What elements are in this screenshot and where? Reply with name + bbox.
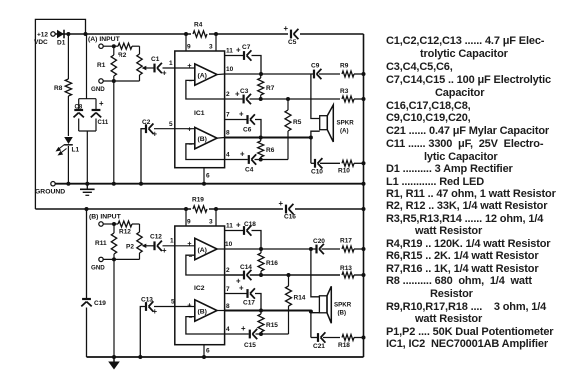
terminal +12 VDC <box>51 32 55 36</box>
junction R16 on pin2 B <box>259 273 263 277</box>
wire R3 to rail <box>354 98 364 100</box>
speaker A wiring top <box>311 74 320 119</box>
wire C2 to pin 5 <box>154 128 195 130</box>
svg-text:9: 9 <box>187 44 191 51</box>
wire filter to ground <box>86 131 88 184</box>
wire R10 to rail <box>354 162 364 164</box>
terminal input B <box>99 222 103 226</box>
svg-text:C14: C14 <box>240 264 252 271</box>
junction R14 on pin2 B <box>287 273 291 277</box>
svg-text:+: + <box>239 110 244 119</box>
junction C18/R16 on pin10 B <box>259 247 263 251</box>
pin 3 stub IC2 <box>215 209 217 226</box>
pin 7 net: wire <box>225 119 247 121</box>
svg-text:GND: GND <box>91 265 105 272</box>
svg-text:C12: C12 <box>150 234 162 241</box>
capacitor C14 <box>243 271 245 280</box>
capacitor C5 on top rail <box>288 28 300 40</box>
wire input A <box>103 45 118 47</box>
resistor R11 <box>113 224 115 357</box>
svg-text:1: 1 <box>169 60 173 67</box>
svg-text:C11: C11 <box>98 120 109 126</box>
junction R11-bottom rail <box>112 355 116 359</box>
pin 8 line <box>225 136 311 138</box>
wire R17 to rail <box>354 248 364 250</box>
pin 8 line B <box>225 309 311 311</box>
resistor R8 <box>64 79 74 96</box>
pin 2 line <box>225 98 243 100</box>
wire C7 to pin10 line <box>252 56 262 75</box>
junction R5 on pin2 <box>286 97 290 101</box>
svg-text:+12: +12 <box>37 32 48 39</box>
svg-text:R14: R14 <box>294 295 306 302</box>
svg-text:+: + <box>241 324 246 333</box>
IC1 box <box>175 51 225 168</box>
svg-text:VDC: VDC <box>34 39 48 46</box>
junction speaker B on pin8 <box>309 310 313 314</box>
junction B rail / right rail <box>362 207 366 211</box>
pin 3 stub <box>215 34 217 51</box>
wire outer frame left <box>35 19 85 209</box>
svg-text:+: + <box>279 199 284 208</box>
svg-text:R4: R4 <box>194 22 203 29</box>
ground arrow bottom <box>113 357 115 362</box>
capacitor C10 <box>314 159 316 168</box>
svg-text:+: + <box>236 221 241 230</box>
svg-text:R12: R12 <box>119 229 131 236</box>
resistor R16 <box>258 253 264 271</box>
wire channel-B top rail <box>35 208 363 210</box>
ground symbol <box>86 184 88 189</box>
junction input A / R1 <box>112 44 116 48</box>
op-amp IC2-B <box>195 300 217 321</box>
wire C13 branch <box>140 307 145 358</box>
svg-text:R15: R15 <box>266 322 278 329</box>
wire R18 to rail <box>354 337 364 339</box>
capacitor C1 <box>153 64 155 73</box>
pin 10 line <box>225 73 313 75</box>
potentiometer P1 wiper arrow <box>144 67 149 69</box>
wire IC1-A feedback <box>186 80 225 99</box>
wire C2 branch <box>141 129 145 184</box>
svg-text:R13: R13 <box>340 265 352 272</box>
pin 4 line B <box>225 333 249 335</box>
resistor R13 <box>342 272 354 278</box>
wire R2 to P1 <box>132 45 140 47</box>
wire IC2-B feedback <box>186 317 225 334</box>
resistor R1 <box>113 46 115 184</box>
wire wiper to C1 <box>149 67 155 69</box>
svg-text:C1: C1 <box>151 56 160 63</box>
junction R1 / GND line <box>112 79 116 83</box>
resistor R6 <box>258 141 264 157</box>
C21-R18 line <box>311 337 317 339</box>
wire channel-B left border with C19 <box>86 209 88 298</box>
svg-text:SPKR: SPKR <box>334 302 352 309</box>
wire bottom rail <box>87 356 364 358</box>
svg-text:(B) INPUT: (B) INPUT <box>89 214 122 221</box>
capacitor C15 <box>249 330 251 339</box>
svg-text:R11: R11 <box>95 240 107 247</box>
svg-text:5: 5 <box>169 121 173 128</box>
svg-text:R19: R19 <box>192 197 204 204</box>
junction R1-ground rail <box>112 182 116 186</box>
LED L1 emission arrows <box>58 145 65 150</box>
speaker A wiring bottom <box>311 131 320 163</box>
wire supply filter branch <box>86 34 88 99</box>
capacitor C13 <box>145 302 147 311</box>
svg-text:−: − <box>189 315 193 322</box>
svg-text:R16: R16 <box>266 260 278 267</box>
resistor R10 <box>342 160 354 166</box>
pin 10 line B <box>225 248 316 250</box>
svg-text:10: 10 <box>225 241 233 248</box>
speaker SPKR (A) <box>320 116 328 130</box>
wire IC1-B feedback <box>186 144 225 160</box>
svg-text:(B): (B) <box>198 136 207 143</box>
junction C2-ground rail <box>139 182 143 186</box>
svg-text:7: 7 <box>226 112 230 119</box>
junction speaker B top <box>309 247 313 251</box>
svg-text:+: + <box>162 246 167 255</box>
svg-text:1: 1 <box>170 238 174 245</box>
resistor R5 branch <box>287 131 289 160</box>
svg-text:IC2: IC2 <box>194 285 205 292</box>
svg-text:8: 8 <box>226 130 230 137</box>
resistor R2 <box>118 43 132 49</box>
junction frame / channel-B border <box>85 207 89 211</box>
resistor R18 <box>342 335 354 341</box>
pin 4 line <box>225 159 248 161</box>
svg-text:R3: R3 <box>340 88 349 95</box>
svg-text:GND: GND <box>91 86 105 93</box>
junction filter-ground <box>85 182 89 186</box>
svg-text:C18: C18 <box>244 221 256 228</box>
svg-text:R18: R18 <box>338 342 350 349</box>
svg-text:R8: R8 <box>54 85 63 92</box>
svg-text:11: 11 <box>226 223 233 230</box>
pin 11 net B: wire <box>225 230 243 232</box>
resistor R17 <box>342 246 354 252</box>
pin 9 stub <box>185 34 187 51</box>
resistor R19 <box>191 203 209 215</box>
svg-text:9: 9 <box>187 219 191 226</box>
wire R12 to P2 <box>132 223 140 225</box>
svg-text:−: − <box>189 78 193 85</box>
pin 7 net B: wire <box>225 293 247 295</box>
svg-text:IC1: IC1 <box>194 110 205 117</box>
wire GND line A <box>103 80 139 82</box>
svg-text:(A): (A) <box>198 73 207 80</box>
svg-text:+: + <box>239 284 244 293</box>
capacitor C12 <box>153 241 155 250</box>
pin 9 stub IC2 <box>185 209 187 226</box>
svg-text:C10: C10 <box>311 169 323 176</box>
potentiometer P1 <box>139 46 141 81</box>
wire +12V top rail <box>55 33 364 35</box>
speaker B wiring top <box>311 249 320 297</box>
svg-text:+: + <box>99 99 104 108</box>
junction input B / R11 <box>112 222 116 226</box>
svg-text:7: 7 <box>226 286 230 293</box>
svg-text:C19: C19 <box>94 300 106 307</box>
resistor R7 <box>258 78 264 95</box>
svg-text:R6: R6 <box>266 147 275 154</box>
junction L1-ground <box>66 182 70 186</box>
op-amp IC1-B <box>195 127 217 148</box>
op-amp IC1-A <box>195 64 217 85</box>
parts list text column <box>386 35 544 47</box>
capacitor C18 <box>243 226 245 235</box>
svg-text:C6: C6 <box>243 127 252 134</box>
svg-text:8: 8 <box>226 303 230 310</box>
wire IC2-B output <box>217 310 225 312</box>
svg-text:4: 4 <box>226 152 230 159</box>
svg-text:(A) INPUT: (A) INPUT <box>88 36 121 43</box>
svg-text:+: + <box>240 150 245 159</box>
svg-text:R1: R1 <box>97 62 106 69</box>
capacitor C8 / C11 parallel box <box>79 98 96 100</box>
svg-text:C15: C15 <box>244 342 256 349</box>
svg-text:C8: C8 <box>75 105 83 111</box>
junction R11 / GND line B <box>112 257 116 261</box>
capacitor C4 <box>248 155 250 164</box>
svg-text:6: 6 <box>206 173 210 180</box>
wire GND line B <box>103 258 139 260</box>
potentiometer P2 wiper arrow <box>144 245 149 247</box>
capacitor C17 <box>246 289 248 298</box>
wire wiper to C12 <box>149 245 155 247</box>
pin 2 line B <box>225 274 243 276</box>
svg-text:R9: R9 <box>340 63 349 70</box>
svg-text:+: + <box>162 69 167 78</box>
junction R6 on pin4 <box>259 158 263 162</box>
wire C13 to pin 5 IC2 <box>154 306 195 308</box>
resistor R15 <box>258 314 264 332</box>
svg-text:10: 10 <box>226 66 234 73</box>
pin 6 stub IC1 <box>203 168 205 184</box>
pin 6 stub IC2 <box>203 345 205 357</box>
svg-text:4: 4 <box>226 326 230 333</box>
LED L1 <box>64 136 74 146</box>
speaker SPKR (B) <box>319 296 327 313</box>
capacitor C11 <box>92 109 101 111</box>
capacitor C20 <box>315 245 317 254</box>
svg-text:C21: C21 <box>313 343 325 350</box>
svg-text:C7: C7 <box>242 44 251 51</box>
svg-text:C3: C3 <box>240 88 249 95</box>
wire R8-LED branch <box>67 34 69 184</box>
svg-text:R10: R10 <box>338 168 350 175</box>
wire IC1-A output <box>217 73 225 76</box>
svg-text:SPKR: SPKR <box>337 120 355 127</box>
terminal input A <box>99 44 103 48</box>
capacitor C7 <box>243 51 245 60</box>
svg-text:R17: R17 <box>340 238 352 245</box>
svg-text:+: + <box>187 239 192 248</box>
capacitor C19 <box>82 298 91 300</box>
capacitor C8 <box>74 109 83 111</box>
svg-text:+: + <box>187 61 192 70</box>
svg-text:+: + <box>187 300 192 309</box>
junction ground rail / right rail <box>362 182 366 186</box>
wire C18 to pin10 line <box>252 231 262 250</box>
capacitor C21 <box>317 333 319 342</box>
capacitor C9 <box>313 70 315 79</box>
junction R15 on pin4 B <box>259 332 263 336</box>
svg-text:2: 2 <box>226 91 230 98</box>
junction speaker A on pin8 <box>309 136 313 140</box>
capacitor C3 <box>243 95 245 104</box>
terminal GROUND <box>51 182 55 186</box>
diode D1 <box>57 30 64 39</box>
wire C17 to pin8 line B <box>255 294 261 311</box>
capacitor C16 on channel-B rail <box>283 203 295 215</box>
svg-text:+: + <box>153 307 158 316</box>
svg-text:(A): (A) <box>198 247 207 254</box>
svg-text:C13: C13 <box>141 297 153 304</box>
pin 11 net: wire <box>225 55 243 57</box>
svg-text:L1: L1 <box>72 147 80 154</box>
svg-text:R7: R7 <box>266 85 275 92</box>
svg-text:+: + <box>236 46 241 55</box>
junction +12 rail / frame <box>84 32 88 36</box>
svg-text:R5: R5 <box>293 119 302 126</box>
junction C7/R7 on pin10 <box>259 72 263 76</box>
svg-text:(B): (B) <box>198 309 207 316</box>
wire R13 to rail <box>354 274 364 276</box>
wire C6 to pin8 line <box>255 120 261 138</box>
wire C1 to pin 1 <box>163 67 195 69</box>
speaker B wiring bottom <box>311 313 320 338</box>
svg-text:+: + <box>284 24 289 33</box>
svg-text:R2: R2 <box>118 52 127 59</box>
IC2 box <box>175 226 225 345</box>
svg-text:−: − <box>189 142 193 149</box>
resistor R3 <box>342 96 354 102</box>
wire R9 to rail <box>354 73 364 75</box>
wire IC1-B output <box>217 137 225 140</box>
svg-text:−: − <box>189 253 193 260</box>
potentiometer P2 <box>139 224 141 259</box>
svg-text:D1: D1 <box>57 40 66 47</box>
wire input B <box>103 223 118 225</box>
resistor R9 <box>342 71 354 77</box>
svg-text:C5: C5 <box>288 39 297 46</box>
resistor R12 <box>118 221 132 227</box>
wire C12 to pin 1 IC2 <box>163 245 195 247</box>
svg-text:3: 3 <box>209 44 213 51</box>
svg-text:C20: C20 <box>313 238 325 245</box>
svg-text:GROUND: GROUND <box>35 189 65 196</box>
svg-text:C2: C2 <box>142 119 151 126</box>
svg-text:C17: C17 <box>243 300 255 307</box>
terminal GND input B <box>99 257 103 261</box>
C10-R10 line <box>311 162 314 164</box>
svg-text:(A): (A) <box>340 128 349 135</box>
svg-text:3: 3 <box>209 219 213 226</box>
junction C13-bottom rail <box>138 355 142 359</box>
junction R7 on pin2 <box>259 97 263 101</box>
wire IC2-A feedback <box>186 255 225 275</box>
junction D1 output <box>66 32 70 36</box>
svg-text:P2: P2 <box>126 244 134 251</box>
svg-text:2: 2 <box>226 267 230 274</box>
resistor R4 <box>191 28 209 40</box>
svg-text:C4: C4 <box>245 167 254 174</box>
capacitor C6 <box>246 115 248 124</box>
op-amp IC2-A <box>195 238 217 259</box>
wire ground rail <box>55 183 364 185</box>
svg-text:+: + <box>153 130 158 139</box>
terminal GND input A <box>99 79 103 83</box>
resistor R14 branch <box>288 306 290 334</box>
wire IC2-A output <box>217 248 225 250</box>
svg-text:(B): (B) <box>338 310 347 317</box>
junction C17/R15 on pin8 B <box>259 309 263 313</box>
svg-text:+: + <box>187 125 192 134</box>
capacitor C2 <box>145 124 147 133</box>
svg-text:11: 11 <box>226 48 233 55</box>
wire right rail <box>363 34 365 357</box>
svg-text:C16: C16 <box>284 214 296 221</box>
junction C6/R6 on pin8 <box>259 136 263 140</box>
svg-text:6: 6 <box>206 348 210 355</box>
svg-text:C9: C9 <box>311 63 320 70</box>
